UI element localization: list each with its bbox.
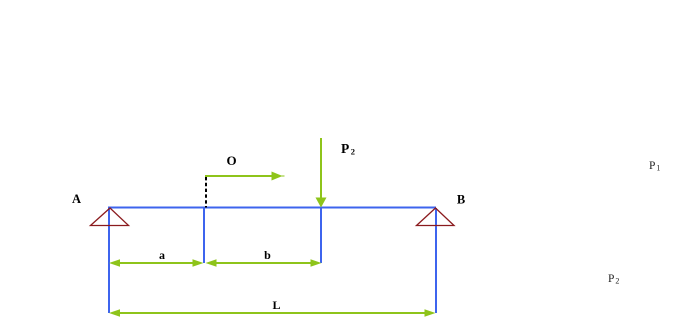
svg-text:A: A — [72, 192, 81, 206]
svg-text:a: a — [159, 248, 165, 262]
svg-text:P2: P2 — [341, 141, 355, 157]
svg-text:b: b — [264, 248, 271, 262]
svg-text:B: B — [457, 193, 465, 207]
svg-text:P2: P2 — [608, 273, 619, 286]
svg-text:O: O — [226, 153, 236, 168]
svg-text:L: L — [272, 298, 280, 312]
svg-text:P1: P1 — [649, 160, 660, 173]
